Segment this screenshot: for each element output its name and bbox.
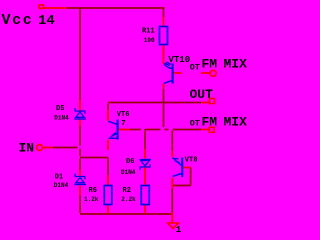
svg-text:1.2k: 1.2k [84, 196, 99, 203]
svg-text:OT: OT [190, 118, 200, 128]
svg-text:MIX: MIX [224, 115, 248, 130]
svg-text:D1: D1 [55, 174, 63, 182]
svg-text:MIX: MIX [224, 57, 248, 72]
svg-text:D1N4: D1N4 [121, 169, 136, 176]
svg-text:R11: R11 [142, 28, 155, 36]
svg-text:VT8: VT8 [185, 156, 198, 164]
svg-text:1: 1 [176, 225, 182, 235]
svg-text:OT: OT [190, 62, 200, 72]
svg-text:7: 7 [121, 120, 126, 128]
svg-text:VT6: VT6 [117, 111, 130, 119]
svg-text:14: 14 [38, 13, 55, 29]
svg-text:OUT: OUT [190, 87, 214, 102]
svg-text:VT10: VT10 [168, 54, 190, 65]
svg-text:D1N4: D1N4 [54, 182, 69, 189]
svg-text:IN: IN [19, 141, 35, 156]
svg-text:100: 100 [144, 37, 155, 44]
svg-text:FM: FM [202, 115, 218, 130]
svg-text:D1N4: D1N4 [54, 115, 69, 122]
svg-text:R6: R6 [89, 187, 97, 195]
svg-text:2.2k: 2.2k [121, 196, 136, 203]
svg-text:D5: D5 [56, 105, 64, 113]
svg-text:D6: D6 [126, 158, 134, 166]
svg-text:R2: R2 [123, 187, 131, 195]
svg-text:Vcc: Vcc [2, 12, 34, 29]
svg-text:FM: FM [202, 57, 218, 72]
